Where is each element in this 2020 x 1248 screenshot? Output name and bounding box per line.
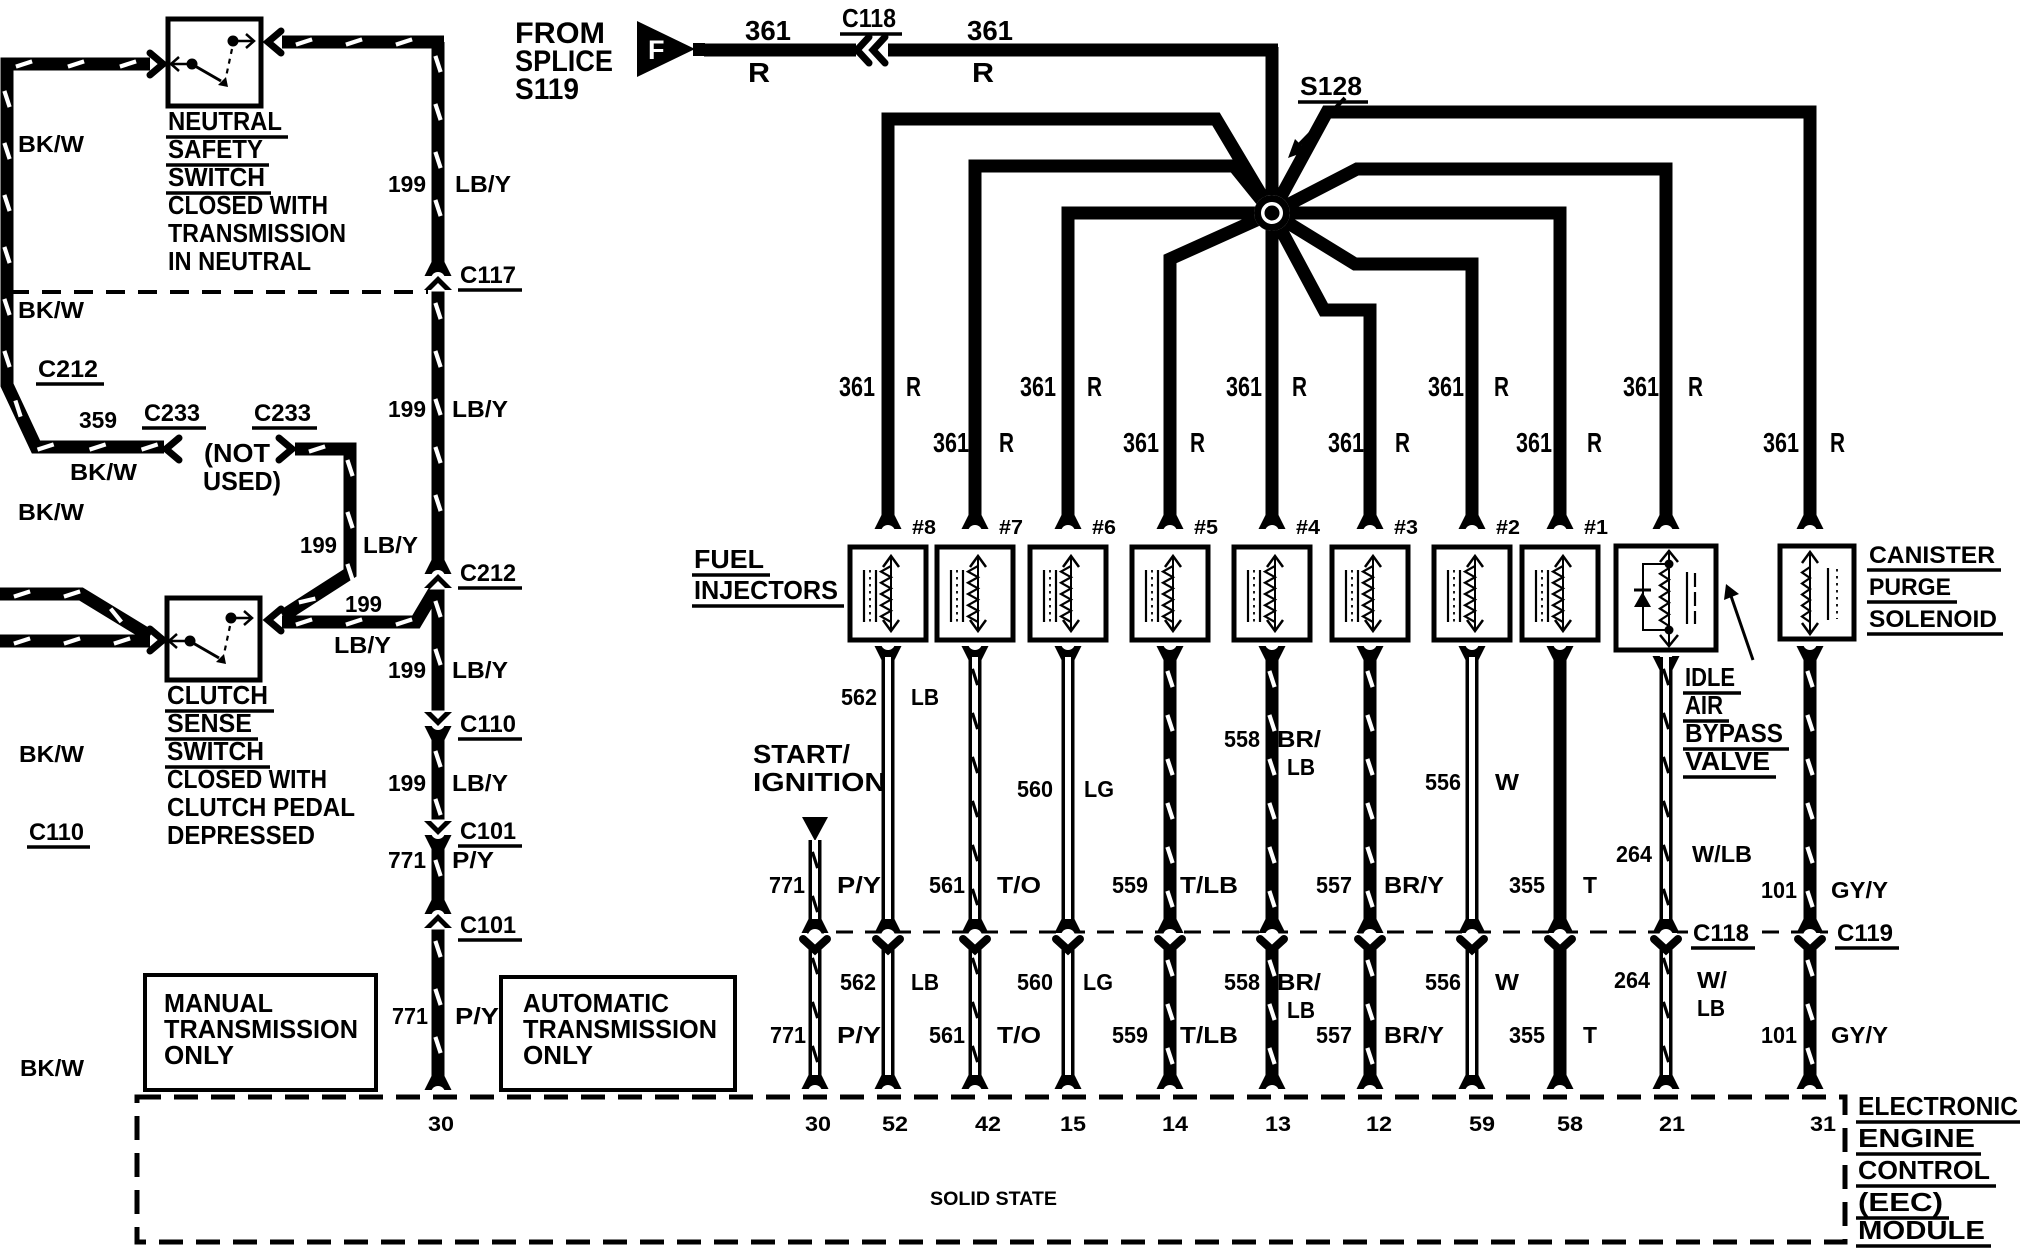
svg-text:C117: C117 [460,262,516,289]
wire 199 LB/Y neutral safety switch to main vertical [282,36,444,49]
svg-text:361: 361 [1123,427,1159,458]
svg-text:SENSE: SENSE [167,708,252,738]
svg-text:771: 771 [769,872,805,898]
wire 771 P/Y lower segment [809,946,822,1077]
svg-text:561: 561 [929,1022,965,1048]
svg-text:BR/Y: BR/Y [1384,1022,1444,1048]
svg-text:LB/Y: LB/Y [452,396,508,422]
svg-text:BR/Y: BR/Y [1384,872,1444,898]
wire 771 P/Y from start/ignition [809,840,822,922]
wire 771 P/Y vertical segment C101-C101 [432,846,445,903]
connector C233 chevron (wire 359 end) [166,438,179,460]
svg-text:R: R [1292,371,1307,402]
svg-text:361: 361 [745,15,791,46]
wire end fork at EEC for x=1560 [1547,1075,1574,1089]
svg-text:561: 561 [929,872,965,898]
inline connector at dashed row x=975 [962,919,989,933]
svg-text:VALVE: VALVE [1685,746,1770,776]
clutch sense switch [167,598,260,680]
wire 361 R from splice S119 to C118 [704,44,856,57]
svg-text:DEPRESSED: DEPRESSED [167,820,315,850]
wire 359 BK/W from neutral safety switch loop [7,64,164,447]
svg-text:C118: C118 [842,3,896,33]
connector C233 chevron (not-used side) [279,438,292,460]
svg-text:559: 559 [1112,1022,1148,1048]
svg-text:T/LB: T/LB [1180,1022,1238,1048]
svg-text:S119: S119 [515,73,579,106]
wire 199 LB/Y from C233 down to clutch switch terminal [283,449,350,616]
wire end fork at EEC for x=815 [802,1075,829,1089]
inline connector at dashed row x=815 [802,919,829,933]
svg-text:P/Y: P/Y [455,1003,499,1029]
wire 355 T upper segment [1554,657,1567,922]
neutral safety switch left terminal chevron [150,53,163,75]
wire 361 R splice to injector 1 [1272,213,1560,518]
svg-text:LG: LG [1083,969,1113,995]
connector fork below component at x=975 [962,646,989,660]
svg-text:LB: LB [911,684,939,710]
wire 199 LB/Y from clutch switch to C212 [282,585,438,622]
neutral safety switch right terminal chevron [268,31,281,53]
wire 558 BR/LB upper segment [1266,657,1279,922]
svg-text:W: W [1495,769,1519,795]
inline connector at dashed row x=1560 [1547,919,1574,933]
svg-text:T/LB: T/LB [1180,872,1238,898]
svg-text:INJECTORS: INJECTORS [694,575,838,605]
dashed boundary line (left) [10,290,428,294]
wire 361 R splice to injector 6 [1068,213,1272,518]
svg-text:#5: #5 [1194,517,1218,539]
svg-text:C101: C101 [460,818,516,845]
svg-text:BK/W: BK/W [20,1055,84,1081]
svg-text:FUEL: FUEL [694,544,764,574]
svg-text:SOLID STATE: SOLID STATE [930,1189,1057,1210]
dashed connector row (C118/C119) [807,931,1688,934]
svg-text:T/O: T/O [997,872,1041,898]
svg-text:355: 355 [1509,1022,1545,1048]
svg-text:LB/Y: LB/Y [363,532,418,558]
fuel injector #8 [850,547,926,640]
canister purge solenoid box [1780,546,1854,639]
svg-text:BR/: BR/ [1277,726,1322,752]
wire 361 R from C118 to splice S128 [888,44,1278,57]
connector C110 [425,726,452,740]
svg-text:C212: C212 [38,356,98,383]
svg-text:USED): USED) [203,466,281,496]
automatic transmission only box [501,977,735,1090]
svg-text:ENGINE: ENGINE [1858,1123,1975,1153]
svg-text:361: 361 [1226,371,1262,402]
svg-text:361: 361 [1763,427,1799,458]
svg-text:361: 361 [1328,427,1364,458]
svg-text:T/O: T/O [997,1022,1041,1048]
svg-text:R: R [1190,427,1205,458]
arrow F from splice S119 [637,21,695,77]
wire 361 R splice to injector 7 [975,166,1272,518]
svg-text:SWITCH: SWITCH [167,736,264,766]
wire end fork at EEC for x=1472 [1459,1075,1486,1089]
fuel injector #5 [1132,547,1208,640]
svg-text:361: 361 [967,15,1013,46]
svg-text:558: 558 [1224,969,1260,995]
inline connector at dashed row x=1370 [1357,919,1384,933]
wire 199 LB/Y vertical segment to C117 [432,42,445,265]
start/ignition feed triangle [802,817,828,841]
svg-text:59: 59 [1469,1113,1495,1136]
svg-text:560: 560 [1017,969,1053,995]
electronic engine control EEC module box [137,1097,1845,1242]
svg-text:30: 30 [428,1113,454,1136]
svg-text:14: 14 [1162,1113,1188,1136]
wire end fork at EEC pin 30 [425,1076,452,1090]
svg-text:#7: #7 [999,517,1023,539]
wire end fork at EEC for x=1810 [1797,1075,1824,1089]
svg-text:13: 13 [1265,1113,1291,1136]
svg-text:CLOSED WITH: CLOSED WITH [167,764,327,794]
svg-text:BYPASS: BYPASS [1685,718,1783,748]
svg-text:771: 771 [770,1022,806,1048]
svg-text:361: 361 [933,427,969,458]
connector fork below component at x=1272 [1259,646,1286,660]
wire end fork at EEC for x=1272 [1259,1075,1286,1089]
svg-text:562: 562 [841,684,877,710]
svg-text:ELECTRONIC: ELECTRONIC [1858,1091,2018,1121]
svg-text:C118: C118 [1693,920,1749,947]
inline connector at dashed row x=1272 [1259,919,1286,933]
svg-text:AIR: AIR [1685,690,1723,720]
connector fork above component at x=1472 [1459,515,1486,529]
svg-text:R: R [1494,371,1509,402]
svg-text:355: 355 [1509,872,1545,898]
svg-text:W/: W/ [1697,967,1728,993]
svg-text:12: 12 [1366,1113,1392,1136]
wire 562 LB upper segment [882,657,895,922]
svg-text:199: 199 [345,591,382,617]
svg-text:W: W [1495,969,1519,995]
svg-text:LB/Y: LB/Y [452,657,508,683]
svg-text:31: 31 [1810,1113,1836,1136]
svg-text:#8: #8 [912,517,936,539]
svg-text:START/: START/ [753,739,850,769]
svg-text:361: 361 [1623,371,1659,402]
svg-text:R: R [906,371,921,402]
wire 361 R splice to injector 3 [1272,213,1370,518]
connector fork below component at x=1472 [1459,646,1486,660]
wire 101 GY/Y upper segment [1804,657,1817,922]
svg-text:R: R [1830,427,1845,458]
svg-text:CONTROL: CONTROL [1858,1155,1990,1185]
svg-text:LB: LB [1287,754,1315,780]
svg-text:SWITCH: SWITCH [168,162,265,192]
svg-text:R: R [1087,371,1102,402]
connector fork above component at x=1170 [1157,515,1184,529]
connector C101 (lower) [425,900,452,914]
inline connector at dashed row x=1068 [1055,919,1082,933]
wire 557 BR/Y upper segment [1364,657,1377,922]
wire 561 T/O upper segment [969,657,982,922]
svg-text:C110: C110 [460,711,516,738]
svg-text:LB: LB [1697,995,1725,1021]
svg-text:R: R [972,57,994,88]
wire 361 R splice to injector 8 [888,119,1272,518]
svg-text:21: 21 [1659,1113,1685,1136]
svg-text:771: 771 [388,847,426,873]
wire 361 R splice to idle air bypass valve [1272,169,1666,518]
svg-text:LB: LB [911,969,939,995]
svg-text:#2: #2 [1496,517,1520,539]
connector fork above component at x=888 [875,515,902,529]
connector fork above component at x=1560 [1547,515,1574,529]
wire 199 LB/Y vertical segment C110-C101 [432,737,445,822]
wire 559 T/LB upper segment [1164,657,1177,922]
connector C117 [425,262,452,276]
svg-text:T: T [1583,1022,1597,1048]
connector fork above component at x=1272 [1259,515,1286,529]
wire 199 LB/Y vertical segment C212-C110 [432,587,445,713]
svg-text:CLOSED WITH: CLOSED WITH [168,190,328,220]
svg-text:(NOT: (NOT [204,438,270,468]
wire 557 BR/Y lower segment [1364,946,1377,1077]
svg-text:BK/W: BK/W [18,297,84,323]
svg-text:GY/Y: GY/Y [1831,877,1888,903]
wire 199 LB/Y vertical segment C117-C212 [432,289,445,563]
wire end fork at EEC for x=1370 [1357,1075,1384,1089]
svg-text:C101: C101 [460,912,516,939]
svg-text:30: 30 [805,1113,831,1136]
svg-text:199: 199 [388,657,426,683]
fuel injector #4 [1234,547,1310,640]
clutch switch right terminal chevron [268,609,281,631]
connector fork above component at x=975 [962,515,989,529]
svg-text:TRANSMISSION: TRANSMISSION [168,218,346,248]
svg-text:R: R [1395,427,1410,458]
svg-text:C119: C119 [1837,920,1893,947]
connector fork below component at x=1666 [1653,656,1680,670]
svg-text:#4: #4 [1296,517,1321,539]
svg-text:P/Y: P/Y [837,1022,881,1048]
svg-text:101: 101 [1761,877,1797,903]
connector C101 (upper) [425,835,452,849]
svg-text:T: T [1583,872,1597,898]
connector fork above component at x=1068 [1055,515,1082,529]
fuel injector #3 [1332,547,1408,640]
svg-text:556: 556 [1425,769,1461,795]
svg-text:771: 771 [392,1003,428,1029]
connector fork below component at x=1560 [1547,646,1574,660]
svg-text:LB/Y: LB/Y [452,770,508,796]
svg-text:IDLE: IDLE [1685,662,1735,692]
connector fork below component at x=1370 [1357,646,1384,660]
svg-text:IGNITION: IGNITION [753,767,886,797]
svg-text:BK/W: BK/W [19,741,84,767]
svg-text:557: 557 [1316,1022,1352,1048]
svg-text:199: 199 [300,532,337,558]
wire 361 R splice to injector 4 [1266,213,1279,518]
svg-text:C233: C233 [254,400,311,427]
svg-text:F: F [648,35,665,65]
svg-text:SOLENOID: SOLENOID [1869,606,1997,633]
svg-text:BK/W: BK/W [70,459,137,485]
inline connector at dashed row x=888 [875,919,902,933]
svg-text:LG: LG [1084,776,1114,802]
svg-text:CANISTER: CANISTER [1869,542,1995,569]
svg-text:PURGE: PURGE [1869,574,1951,601]
svg-text:52: 52 [882,1113,908,1136]
svg-text:15: 15 [1060,1113,1086,1136]
svg-text:NEUTRAL: NEUTRAL [168,106,282,136]
diode branch inside idle air bypass valve [1643,564,1669,630]
svg-text:199: 199 [388,396,426,422]
svg-text:560: 560 [1017,776,1053,802]
svg-text:42: 42 [975,1113,1001,1136]
svg-text:MODULE: MODULE [1858,1215,1985,1245]
svg-text:562: 562 [840,969,876,995]
svg-text:SAFETY: SAFETY [168,134,263,164]
svg-text:ONLY: ONLY [164,1040,234,1070]
svg-text:R: R [1688,371,1703,402]
connector fork above component at x=1666 [1653,515,1680,529]
svg-text:559: 559 [1112,872,1148,898]
wire BK/W into clutch sense switch (lower branch) [0,635,150,648]
svg-text:(EEC): (EEC) [1858,1187,1943,1217]
svg-text:58: 58 [1557,1113,1583,1136]
connector C212 [425,560,452,574]
svg-text:361: 361 [1020,371,1056,402]
wire 562 LB lower segment [882,946,895,1077]
wire BK/W into clutch sense switch (upper branch) [0,594,150,636]
svg-text:264: 264 [1616,841,1652,867]
wire 556 W upper segment [1466,657,1479,922]
svg-text:LB/Y: LB/Y [455,171,511,197]
svg-text:101: 101 [1761,1022,1797,1048]
svg-text:BK/W: BK/W [18,131,84,157]
splice S128 symbol [1254,195,1290,231]
svg-text:R: R [999,427,1014,458]
manual transmission only box [145,975,376,1090]
svg-text:C212: C212 [460,560,516,587]
wire 560 LG lower segment [1062,946,1075,1077]
wire end fork at EEC for x=975 [962,1075,989,1089]
svg-text:LB/Y: LB/Y [334,632,391,658]
idle air bypass valve box [1616,546,1716,650]
connector fork below component at x=1170 [1157,646,1184,660]
clutch switch left terminal chevron [150,629,163,651]
svg-text:#6: #6 [1092,517,1116,539]
svg-text:556: 556 [1425,969,1461,995]
connector fork below component at x=1810 [1797,646,1824,660]
svg-text:BR/: BR/ [1277,969,1322,995]
S128 pointer arrow [1298,98,1345,146]
svg-text:361: 361 [1428,371,1464,402]
inline connector at dashed row x=1666 [1653,919,1680,933]
svg-text:BK/W: BK/W [18,499,84,525]
svg-text:R: R [748,57,770,88]
wire 101 GY/Y lower segment [1804,946,1817,1077]
connector fork below component at x=1068 [1055,646,1082,660]
wire end fork at EEC for x=1068 [1055,1075,1082,1089]
wire 361 R splice to canister purge solenoid [1272,112,1810,518]
wire 355 T lower segment [1554,946,1567,1077]
connector fork above component at x=1370 [1357,515,1384,529]
svg-text:C110: C110 [29,819,84,846]
svg-text:GY/Y: GY/Y [1831,1022,1888,1048]
fuel injector #6 [1030,547,1106,640]
wire 361 R splice to injector 2 [1272,213,1472,518]
connector C118 (top) [857,37,869,63]
svg-text:558: 558 [1224,726,1260,752]
wire 361 R feed into splice S128 [1266,47,1279,213]
wire 771 P/Y vertical segment C101 to EEC pin 30 [432,927,445,1078]
svg-text:ONLY: ONLY [523,1040,593,1070]
fuel injector #2 [1434,547,1510,640]
wire 361 R splice to injector 5 [1170,213,1272,518]
wire 560 LG upper segment [1062,657,1075,922]
wire end fork at EEC for x=1666 [1653,1075,1680,1089]
svg-text:557: 557 [1316,872,1352,898]
svg-text:S128: S128 [1300,71,1362,101]
inline connector at dashed row x=1810 [1797,919,1824,933]
fuel injector #7 [937,547,1013,640]
svg-text:361: 361 [1516,427,1552,458]
svg-text:359: 359 [79,407,117,433]
wire 556 W lower segment [1466,946,1479,1077]
svg-text:199: 199 [388,171,426,197]
connector fork below component at x=888 [875,646,902,660]
neutral safety switch [168,19,261,106]
svg-text:IN NEUTRAL: IN NEUTRAL [168,246,311,276]
svg-text:P/Y: P/Y [452,847,494,873]
svg-text:199: 199 [388,770,426,796]
pointer arrow to idle air bypass valve [1731,596,1753,660]
wire 264 W/LB lower segment [1660,946,1673,1077]
wire end fork at EEC for x=1170 [1157,1075,1184,1089]
svg-text:CLUTCH: CLUTCH [167,680,268,710]
fuel injector #1 [1522,547,1598,640]
wire 561 T/O lower segment [969,946,982,1077]
connector fork above component at x=1810 [1797,515,1824,529]
svg-text:#1: #1 [1584,517,1608,539]
svg-text:P/Y: P/Y [837,872,881,898]
svg-text:#3: #3 [1394,517,1418,539]
wire 559 T/LB lower segment [1164,946,1177,1077]
wire 264 W/LB upper segment [1660,657,1673,922]
svg-text:R: R [1587,427,1602,458]
wire 558 BR/LB lower segment [1266,946,1279,1077]
inline connector at dashed row x=1170 [1157,919,1184,933]
svg-text:264: 264 [1614,967,1650,993]
svg-text:CLUTCH PEDAL: CLUTCH PEDAL [167,792,355,822]
svg-text:W/LB: W/LB [1692,841,1752,867]
inline connector at dashed row x=1472 [1459,919,1486,933]
svg-text:LB: LB [1287,997,1315,1023]
svg-text:361: 361 [839,371,875,402]
svg-text:C233: C233 [144,400,200,427]
wire end fork at EEC for x=888 [875,1075,902,1089]
